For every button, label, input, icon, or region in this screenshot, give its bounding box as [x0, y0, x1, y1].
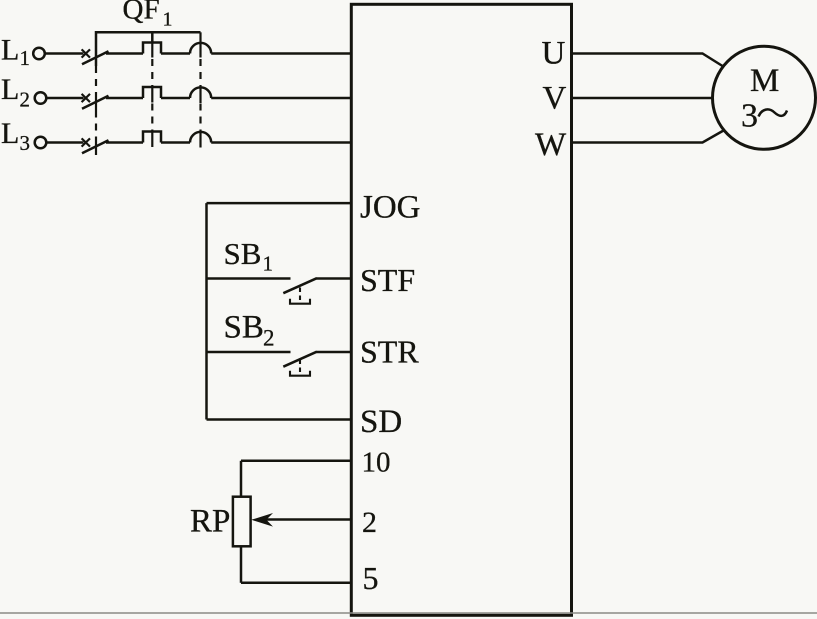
- wire L1 to box: [211, 52, 351, 55]
- wire STF right: [317, 277, 352, 280]
- wire L2 blade to thermal: [106, 97, 143, 100]
- svg-text:QF: QF: [123, 0, 160, 25]
- wire RP top vertical: [240, 461, 243, 497]
- wire L2 thermal to magnetic: [161, 97, 190, 100]
- svg-text:W: W: [535, 127, 567, 163]
- label L1: [1, 34, 30, 70]
- svg-text:RP: RP: [190, 504, 230, 540]
- wire SD: [207, 418, 352, 421]
- svg-text:1: 1: [163, 9, 173, 31]
- svg-text:2: 2: [362, 506, 377, 539]
- pushbutton SB1 blade: [283, 278, 317, 293]
- svg-text:V: V: [543, 81, 567, 117]
- wire STR left: [207, 351, 291, 354]
- breaker QF1 pole2 thermal release: [143, 87, 161, 98]
- wire terminal 2 wiper: [264, 518, 351, 521]
- wire L2 from terminal: [47, 97, 84, 100]
- wire JOG: [207, 202, 352, 205]
- terminal circle L2: [35, 92, 47, 104]
- breaker QF1 pole3 magnetic release arc: [190, 132, 211, 143]
- label SB2: [224, 310, 275, 351]
- wire L1 thermal to magnetic: [161, 52, 190, 55]
- svg-text:L: L: [1, 34, 19, 67]
- wire W to motor: [572, 131, 724, 143]
- breaker QF1 pole1 blade: [82, 51, 109, 64]
- breaker QF1 pole1 magnetic release arc: [190, 43, 211, 54]
- wire RP bottom vertical: [240, 546, 243, 583]
- wire terminal 5: [241, 582, 351, 585]
- breaker QF1 pole2 contact x: [82, 94, 90, 102]
- bottom border line: [0, 612, 817, 614]
- svg-text:2: 2: [20, 88, 31, 112]
- breaker QF1 pole3 contact x: [82, 138, 90, 146]
- wire L3 thermal to magnetic: [161, 141, 190, 144]
- label L3: [1, 117, 30, 155]
- inverter box U1: [351, 4, 571, 615]
- breaker QF1 linkage dashed line right: [199, 32, 201, 147]
- svg-text:SB: SB: [224, 310, 264, 346]
- wire L3 from terminal: [47, 141, 84, 144]
- svg-text:M: M: [750, 63, 779, 99]
- wire L1 blade to thermal: [106, 52, 143, 55]
- breaker QF1 linkage bracket: [96, 32, 201, 66]
- wire U to motor: [572, 54, 723, 67]
- terminal circle L3: [35, 137, 47, 149]
- wire L1 from terminal: [45, 52, 83, 55]
- pushbutton SB2 blade: [283, 352, 317, 367]
- svg-text:1: 1: [20, 46, 31, 70]
- pushbutton SB1 actuator: [290, 288, 310, 304]
- potentiometer RP body: [233, 497, 251, 547]
- breaker QF1 pole3 blade: [82, 140, 109, 153]
- wire terminal 10: [241, 460, 351, 463]
- label SB1: [224, 236, 274, 275]
- wire STR right: [317, 351, 352, 354]
- breaker QF1 linkage dashed line middle: [151, 43, 153, 148]
- motor label tilde: [759, 109, 788, 116]
- wire V to motor: [572, 97, 713, 100]
- breaker QF1 pole1 thermal release: [143, 43, 161, 54]
- RP wiper arrow head: [251, 513, 273, 527]
- svg-text:1: 1: [263, 252, 274, 276]
- breaker QF1 pole2 magnetic release arc: [190, 87, 211, 98]
- wire L3 to box: [211, 141, 351, 144]
- svg-text:3: 3: [741, 98, 758, 135]
- label L2: [1, 73, 30, 111]
- svg-text:STR: STR: [360, 334, 419, 370]
- svg-text:2: 2: [263, 325, 275, 350]
- breaker QF1 pole3 thermal release: [143, 132, 161, 143]
- breaker QF1 linkage dashed line left: [95, 66, 97, 155]
- wire L3 blade to thermal: [106, 141, 143, 144]
- svg-text:STF: STF: [360, 262, 415, 298]
- svg-text:U: U: [542, 36, 566, 72]
- wire L2 to box: [211, 97, 351, 100]
- wire STF left: [207, 277, 291, 280]
- terminal circle L1: [33, 48, 45, 60]
- svg-text:SB: SB: [224, 236, 262, 271]
- svg-text:3: 3: [20, 131, 31, 155]
- svg-text:5: 5: [363, 560, 379, 596]
- svg-text:JOG: JOG: [360, 190, 421, 226]
- breaker QF1 pole1 contact x: [82, 49, 90, 57]
- svg-text:L: L: [1, 73, 19, 106]
- svg-text:10: 10: [362, 447, 391, 479]
- svg-text:SD: SD: [360, 404, 402, 440]
- pushbutton SB2 actuator: [290, 360, 310, 376]
- svg-text:L: L: [1, 117, 19, 150]
- label QF1: [123, 0, 173, 31]
- motor M circle: [713, 46, 816, 149]
- control bus vertical wire: [205, 203, 208, 419]
- breaker QF1 pole2 blade: [82, 96, 109, 109]
